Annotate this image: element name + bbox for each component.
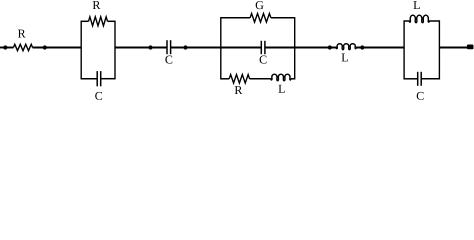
wire block2 middle-left segment bbox=[221, 47, 261, 49]
capacitor C1 left plate (bottom of block 1) bbox=[96, 71, 98, 86]
wire block2 bottom-right segment bbox=[291, 78, 295, 80]
output terminal (filled square) bbox=[467, 45, 474, 50]
capacitor C3 right plate bbox=[264, 41, 266, 54]
node dot (right of R1) bbox=[43, 45, 47, 49]
label C for capacitor C1 bbox=[95, 92, 102, 100]
inductor L3 (top of block 3) bbox=[409, 15, 429, 23]
capacitor C2 right plate bbox=[170, 40, 172, 54]
node dot (right of L2) bbox=[360, 45, 364, 49]
wire block2 right vertical bbox=[294, 17, 296, 79]
node dot (input junction) bbox=[3, 45, 7, 49]
inductor L2 (series L) bbox=[336, 44, 356, 50]
wire block1 left vertical bbox=[80, 21, 82, 80]
label C for capacitor C3 bbox=[260, 56, 267, 64]
wire block2 middle-right segment bbox=[265, 47, 295, 49]
wire block3 left vertical bbox=[403, 20, 405, 79]
label R for resistor R3 bbox=[235, 86, 243, 94]
capacitor C4 left plate (bottom of block 3) bbox=[417, 72, 419, 86]
label L for inductor L3 bbox=[413, 1, 419, 9]
wire R3 to inductor L1 bbox=[250, 78, 272, 80]
label R for series resistor R1 bbox=[18, 30, 26, 38]
node dot (left of C2) bbox=[148, 45, 152, 49]
resistor R3 (bottom of block 2) bbox=[229, 75, 249, 84]
wire block1 top-left segment bbox=[81, 20, 88, 22]
wire block3 bottom-right segment bbox=[421, 78, 439, 80]
label R for resistor R2 bbox=[93, 1, 101, 9]
label C for series capacitor C2 bbox=[165, 56, 172, 64]
node dot (right of C2) bbox=[183, 45, 187, 49]
wire block2 top-left segment bbox=[221, 17, 250, 19]
label G for conductance G bbox=[256, 1, 264, 9]
wire block2 top-right segment bbox=[271, 17, 295, 19]
wire block1 bottom-right segment bbox=[101, 78, 115, 80]
label L for inductor L1 bbox=[278, 85, 284, 93]
resistor R2 (top of block 1) bbox=[89, 17, 108, 26]
wire block1 to series capacitor C2 bbox=[115, 47, 167, 49]
wire series capacitor C2 to parallel block 2 bbox=[171, 47, 221, 49]
wire left input lead bbox=[0, 47, 14, 49]
wire block3 top-left segment bbox=[404, 20, 410, 22]
capacitor C1 right plate bbox=[100, 71, 102, 86]
resistor R1 (series R at left) bbox=[13, 44, 32, 50]
label C for capacitor C4 bbox=[417, 92, 424, 100]
label L for series inductor L2 bbox=[342, 54, 348, 62]
wire from R1 to parallel block 1 bbox=[33, 47, 82, 49]
capacitor C2 left plate (series C) bbox=[166, 40, 168, 54]
resistor G (conductance, top of block 2) bbox=[250, 14, 271, 23]
inductor L1 (bottom of block 2) bbox=[271, 74, 291, 81]
capacitor C4 right plate bbox=[420, 72, 422, 86]
wire block1 bottom-left segment bbox=[81, 78, 97, 80]
node dot (left of L2) bbox=[328, 45, 332, 49]
wire block2 left vertical bbox=[220, 17, 222, 79]
wire block3 bottom-left segment bbox=[404, 78, 418, 80]
wire block2 bottom-left segment bbox=[221, 78, 229, 80]
wire block1 top-right segment bbox=[108, 20, 116, 22]
wire series inductor L2 to parallel block 3 bbox=[356, 47, 404, 49]
wire block3 right vertical bbox=[438, 20, 440, 79]
wire block2 to series inductor L2 bbox=[295, 47, 337, 49]
wire block1 right vertical bbox=[114, 21, 116, 80]
wire block3 top-right segment bbox=[429, 20, 439, 22]
wire block3 to output terminal bbox=[439, 47, 470, 49]
capacitor C3 left plate (middle of block 2) bbox=[260, 41, 262, 54]
